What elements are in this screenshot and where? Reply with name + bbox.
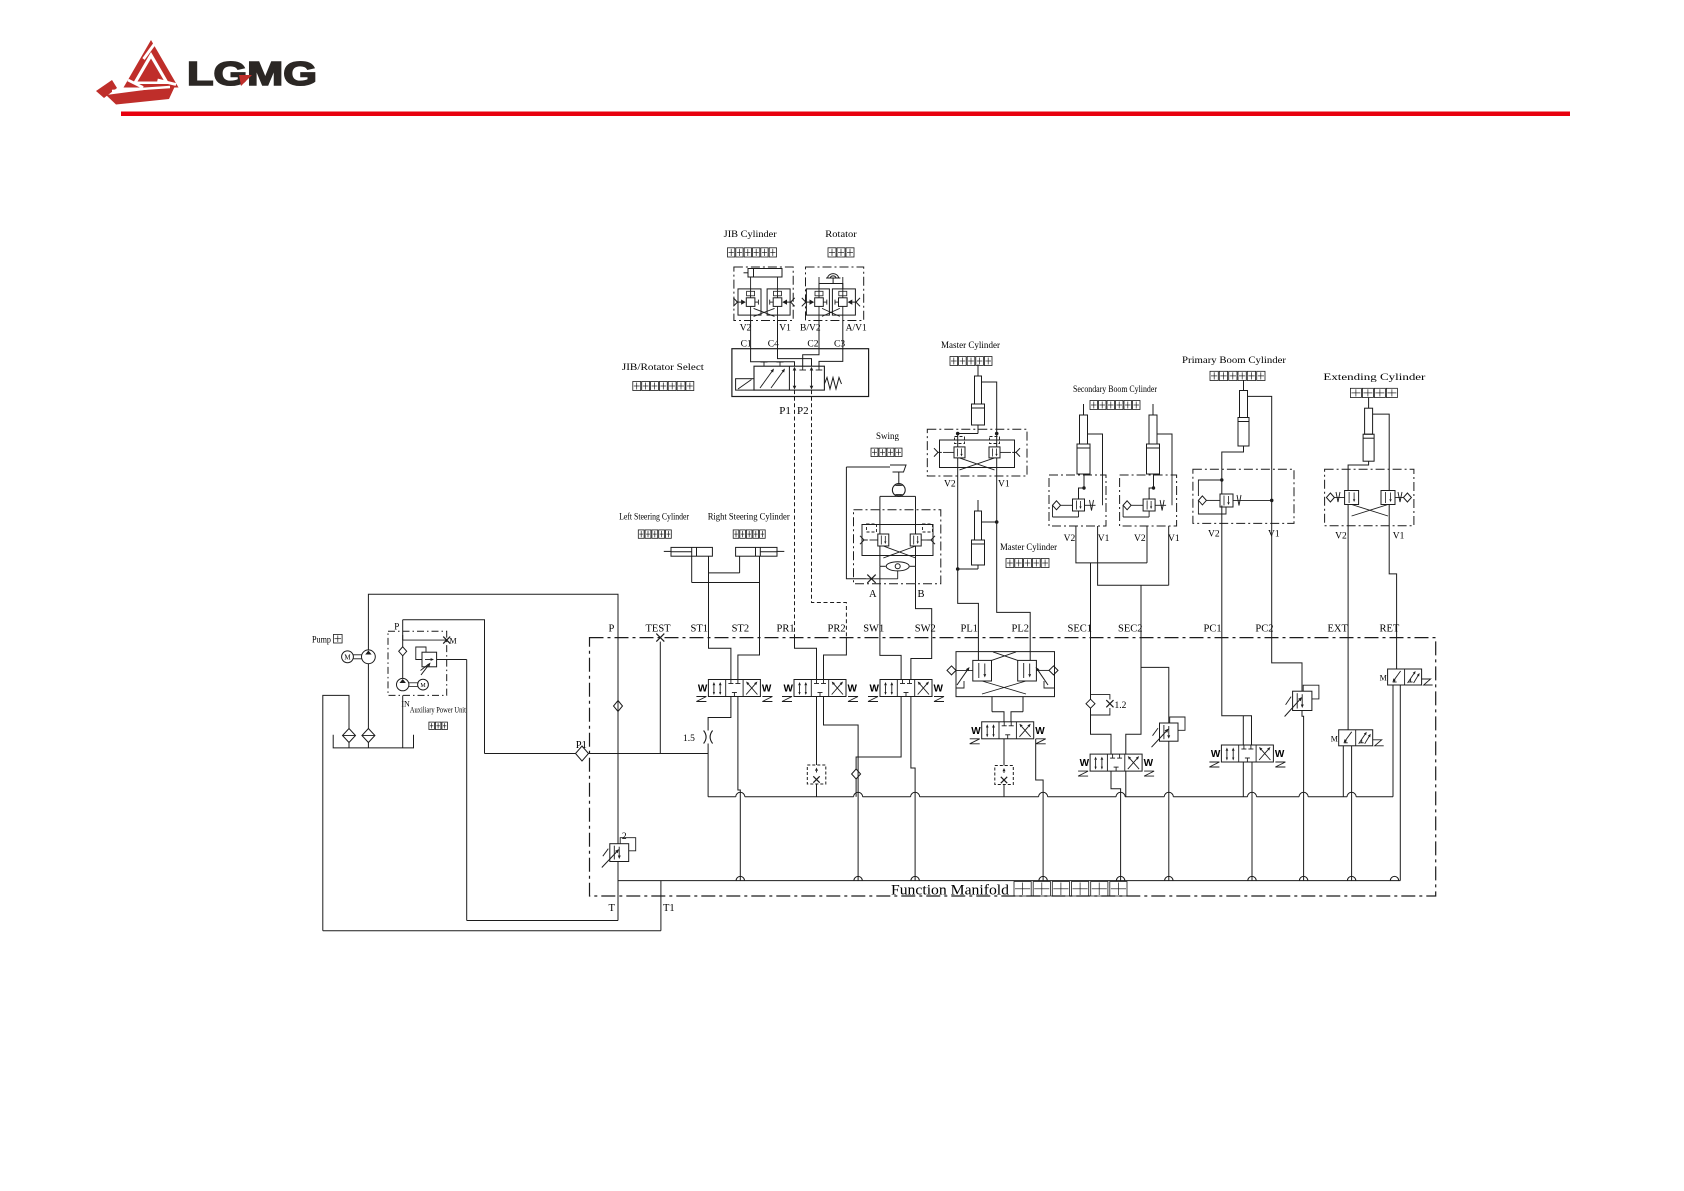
label Master Cylinder lower (1000, 543, 1058, 568)
check valve PR feed (807, 697, 826, 797)
label Secondary Boom Cylinder (1073, 385, 1158, 410)
Steering cylinders (664, 547, 785, 556)
wire SEC P feed (1125, 771, 1127, 797)
svg-text:SEC2: SEC2 (1118, 624, 1143, 635)
wire APU IN to tank (402, 695, 404, 748)
check valve PL feed (995, 739, 1014, 797)
svg-text:V2: V2 (1335, 532, 1347, 542)
label V2 (master) (944, 480, 956, 490)
wire steering to ST1/ST2 (692, 556, 760, 637)
label V2 (sec L) (1064, 534, 1076, 544)
filter F2 (362, 729, 375, 743)
label V2 (primary) (1208, 530, 1220, 540)
wire PC2 relief drain (1302, 711, 1304, 881)
wire P2 pilot (812, 390, 847, 637)
svg-text:T: T (609, 903, 616, 914)
label V1 (primary) (1268, 530, 1280, 540)
logo LGMG wordmark (187, 55, 317, 92)
valve SW 4/3 (868, 680, 944, 702)
Primary boom cylinder + CB block (1193, 380, 1294, 523)
label T (609, 903, 616, 914)
svg-text:M: M (420, 683, 426, 689)
logo LGMG triangle (96, 40, 179, 105)
wire ST2 to valve (738, 638, 760, 680)
label Master Cylinder upper (941, 341, 1001, 366)
svg-text:Primary Boom Cylinder: Primary Boom Cylinder (1182, 356, 1287, 366)
wire SEC relief drain (1168, 741, 1170, 880)
svg-text:W: W (698, 684, 708, 695)
port labels row (609, 624, 1400, 635)
svg-text:B/V2: B/V2 (800, 324, 821, 334)
svg-text:W: W (1080, 758, 1090, 769)
wire ST P from orifice (708, 697, 731, 754)
label A (869, 589, 877, 600)
svg-text:ST2: ST2 (732, 624, 750, 635)
wire C4 (777, 321, 779, 349)
svg-text:W: W (784, 684, 794, 695)
wire extend V1 to RET (1389, 526, 1396, 638)
Auxiliary power unit (388, 620, 467, 696)
check valve on P (614, 701, 623, 712)
label C3 (834, 340, 845, 350)
svg-text:Pump: Pump (312, 636, 331, 646)
label V1 (extend) (1393, 532, 1405, 542)
svg-text:Function Manifold: Function Manifold (891, 883, 1010, 899)
wire PL1 into CB (977, 638, 979, 661)
wire master V2 to PL1 (958, 476, 979, 638)
relief valve PC2 (1285, 685, 1319, 716)
wire filter stub 2 (367, 743, 369, 748)
svg-text:A: A (869, 589, 877, 600)
svg-text:W: W (971, 726, 981, 737)
svg-text:V2: V2 (944, 480, 956, 490)
svg-text:2: 2 (622, 832, 627, 842)
svg-text:SW2: SW2 (915, 624, 936, 635)
svg-text:P: P (609, 624, 615, 635)
wire master V1 to PL2 (997, 476, 1030, 638)
supply rail hops (736, 792, 1356, 797)
svg-text:V2: V2 (740, 324, 752, 334)
svg-text:SW1: SW1 (863, 624, 884, 635)
svg-text:JIB/Rotator Select: JIB/Rotator Select (622, 363, 704, 373)
wire PC T return (1251, 762, 1253, 881)
svg-text:SEC1: SEC1 (1068, 624, 1093, 635)
label P2 (select) (797, 405, 809, 417)
Function Manifold border (590, 638, 1436, 896)
svg-text:W: W (934, 684, 944, 695)
svg-text:V1: V1 (1098, 534, 1110, 544)
svg-text:Secondary Boom Cylinder: Secondary Boom Cylinder (1073, 385, 1158, 395)
wire tank gallery (618, 881, 1400, 921)
wire SW P feed (852, 697, 902, 797)
wire PL2 into CB (1029, 638, 1031, 661)
tank (333, 735, 413, 748)
svg-text:PL1: PL1 (961, 624, 979, 635)
svg-text:Swing: Swing (876, 432, 899, 442)
Rotator counterbalance valve block (802, 267, 864, 321)
svg-text:Master Cylinder: Master Cylinder (1000, 543, 1058, 553)
relief valve 2 (602, 832, 636, 868)
wire ST T return (738, 697, 740, 881)
label Auxiliary Power Unit (410, 706, 467, 730)
wire PR2 to valve (824, 638, 847, 680)
wire PR T return (824, 697, 859, 881)
wire T1 drain (323, 881, 661, 931)
wire RET P feed (1392, 685, 1394, 797)
svg-text:W: W (1275, 749, 1285, 760)
svg-text:W: W (762, 684, 772, 695)
wire filter stub (348, 743, 350, 748)
svg-text:1.2: 1.2 (1115, 701, 1127, 711)
svg-text:ST1: ST1 (691, 624, 709, 635)
wire PC2 jog (1272, 638, 1302, 692)
svg-text:Left Steering Cylinder: Left Steering Cylinder (619, 512, 690, 523)
svg-text:PL2: PL2 (1012, 624, 1030, 635)
plug TEST (656, 634, 664, 754)
label Left Steering Cylinder (619, 512, 690, 539)
wire SW2 to valve (911, 638, 932, 680)
valve PC 4/3 (1209, 745, 1285, 767)
Secondary boom cylinder left + CB (1049, 404, 1106, 526)
Master cylinder lower (956, 500, 999, 571)
valve ST 4/3 (696, 680, 772, 702)
wire sec V2 pair to SEC1 (1076, 526, 1147, 638)
label Function Manifold (891, 882, 1127, 899)
svg-text:V1: V1 (1268, 530, 1280, 540)
wire EXT down (1347, 638, 1349, 730)
SEC bypass orifice (1086, 695, 1127, 715)
svg-text:V2: V2 (1208, 530, 1220, 540)
wire APU drain (466, 660, 468, 921)
svg-text:W: W (1144, 758, 1154, 769)
svg-text:V2: V2 (1064, 534, 1076, 544)
svg-text:V1: V1 (998, 480, 1010, 490)
wire SW T return (911, 697, 915, 881)
wire SW1 to valve (880, 638, 901, 680)
svg-text:M: M (450, 637, 457, 646)
svg-text:M: M (1331, 734, 1338, 743)
wire P1 supply line (485, 753, 709, 755)
svg-text:TEST: TEST (646, 624, 672, 635)
svg-text:Right Steering Cylinder: Right Steering Cylinder (708, 513, 791, 523)
wire sec V1 pair to SEC2 (1098, 526, 1169, 638)
wire PR1 to valve (795, 638, 817, 680)
label V2 (JIB) (740, 324, 752, 334)
valve U1 JIB/Rotator select (732, 349, 869, 397)
label C1 (741, 340, 752, 350)
Extending cylinder + CB block (1325, 398, 1414, 526)
valve PL 4/3 (970, 722, 1046, 744)
wire C1 (750, 321, 752, 349)
svg-text:W: W (870, 684, 880, 695)
svg-text:Auxiliary Power Unit: Auxiliary Power Unit (410, 706, 467, 715)
label V1 (master) (998, 480, 1010, 490)
label M (APU) (450, 637, 457, 646)
tank gallery bumps (736, 876, 1399, 880)
wire supply rail (708, 754, 1393, 797)
wire EXT P feed (1342, 746, 1344, 797)
wire PC P feed (1242, 762, 1244, 797)
wire PC1 to valve (1222, 638, 1252, 745)
svg-text:W: W (1035, 726, 1045, 737)
label C4 (768, 340, 779, 350)
label Extending Cylinder (1323, 373, 1426, 398)
wire RET T return (1399, 685, 1401, 881)
wire C2 (818, 321, 820, 349)
svg-text:PR1: PR1 (777, 624, 795, 635)
filter F1 (343, 729, 356, 743)
label Primary Boom Cylinder (1182, 356, 1287, 381)
svg-text:P: P (394, 622, 399, 632)
label V1 (sec R) (1168, 534, 1180, 544)
label IN (401, 700, 410, 709)
svg-text:PC1: PC1 (1204, 624, 1222, 635)
Master cylinder upper + CB block (927, 365, 1027, 477)
wire ST1 to valve (709, 638, 731, 680)
label V2 (sec R) (1134, 534, 1146, 544)
svg-text:T1: T1 (663, 903, 675, 914)
valve RET 3/2 (1380, 669, 1433, 685)
wire return to filter (323, 695, 349, 930)
svg-text:RET: RET (1380, 624, 1400, 635)
wire extend V2 to EXT (1347, 526, 1349, 638)
wire primary V2 to PC1 (1221, 523, 1223, 637)
wire P1 pilot (794, 390, 796, 637)
valve SEC 4/3 (1078, 754, 1154, 776)
label T1 (663, 903, 675, 914)
svg-text:LGMG: LGMG (187, 55, 317, 92)
wire SEC T return (1111, 771, 1121, 881)
label V1 (sec L) (1098, 534, 1110, 544)
svg-text:1.5: 1.5 (683, 734, 695, 744)
label B/V2 (800, 324, 821, 334)
valve PR 4/3 (782, 680, 858, 702)
svg-text:W: W (1211, 749, 1221, 760)
svg-text:JIB Cylinder: JIB Cylinder (724, 230, 778, 240)
wire primary V1 to PC2 (1271, 469, 1273, 637)
Swing motor and counterbalance block (846, 465, 940, 584)
svg-text:B: B (918, 589, 925, 600)
label Pump (312, 634, 342, 645)
svg-text:C3: C3 (834, 340, 845, 350)
label P (APU) (394, 622, 399, 632)
port P1 diamond (576, 740, 589, 761)
svg-text:P1: P1 (576, 740, 587, 751)
label Right Steering Cylinder (708, 513, 791, 539)
svg-text:Rotator: Rotator (825, 230, 857, 240)
wire C3 (842, 321, 844, 349)
orifice 1.5 (683, 731, 713, 745)
motor M1 (342, 651, 362, 663)
wire swing B to SW2 (916, 584, 932, 638)
svg-text:M: M (344, 653, 351, 661)
pump P (362, 650, 376, 664)
label JIB/Rotator Select (622, 363, 704, 391)
wire EXT T return (1351, 746, 1353, 881)
svg-text:PR2: PR2 (828, 624, 846, 635)
label Swing (871, 432, 902, 457)
svg-text:P1: P1 (779, 405, 791, 417)
PL counterbalance pair (947, 652, 1058, 697)
svg-text:V1: V1 (1393, 532, 1405, 542)
svg-text:EXT: EXT (1328, 624, 1349, 635)
wire swing A to SW1 (879, 584, 881, 638)
svg-text:Extending Cylinder: Extending Cylinder (1323, 373, 1426, 383)
label V1 (JIB) (779, 324, 791, 334)
svg-text:V1: V1 (779, 324, 791, 334)
wire CB to PL valve (992, 697, 1023, 722)
header red rule (121, 112, 1570, 117)
label C2 (807, 340, 818, 350)
svg-text:C2: C2 (807, 340, 818, 350)
wire P port vertical (617, 638, 619, 844)
wire pump suction (367, 664, 369, 729)
label Rotator (825, 230, 857, 257)
svg-text:V1: V1 (1168, 534, 1180, 544)
valve EXT 3/2 (1331, 730, 1384, 746)
wire PL T return (1036, 739, 1043, 881)
label P1 (select) (779, 405, 791, 417)
JIB counterbalance valve block (733, 267, 794, 321)
svg-text:P2: P2 (797, 405, 809, 417)
svg-text:V2: V2 (1134, 534, 1146, 544)
wire pump outlet to P port (368, 594, 618, 650)
label JIB Cylinder (724, 230, 778, 257)
Secondary boom cylinder right + CB (1120, 404, 1177, 526)
wire T drain (467, 862, 618, 921)
label B (918, 589, 925, 600)
label V2 (extend) (1335, 532, 1347, 542)
wire SEC1 to valve (1091, 715, 1112, 754)
wire APU P to P1 line (403, 620, 485, 754)
svg-text:W: W (848, 684, 858, 695)
svg-text:M: M (1380, 674, 1387, 683)
relief valve SEC (1141, 667, 1185, 747)
svg-text:A/V1: A/V1 (846, 324, 867, 334)
label A/V1 (846, 324, 867, 334)
svg-text:Master Cylinder: Master Cylinder (941, 341, 1001, 351)
wire SEC1 down (1090, 638, 1092, 700)
svg-text:PC2: PC2 (1255, 624, 1273, 635)
wire RET down (1396, 638, 1398, 669)
wire SEC2 to valve (1126, 638, 1141, 755)
